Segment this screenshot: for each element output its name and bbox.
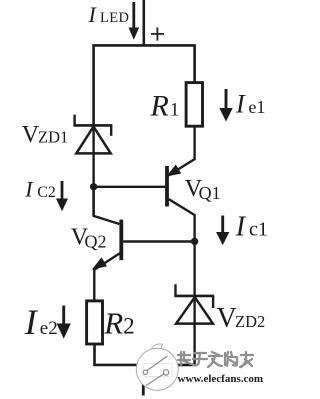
svg-text:I: I xyxy=(235,90,246,119)
transistor VQ1 xyxy=(166,128,194,242)
current arrow IC2 xyxy=(56,181,68,211)
label VZD1 xyxy=(22,122,68,148)
label VZD2 xyxy=(217,303,266,334)
svg-text:2: 2 xyxy=(123,313,135,338)
svg-text:1: 1 xyxy=(170,99,180,120)
svg-text:V: V xyxy=(217,303,237,334)
svg-text:R: R xyxy=(103,305,123,340)
label IC2 xyxy=(24,177,56,202)
svg-text:ZD2: ZD2 xyxy=(235,312,265,331)
wire: R2 bottom to bottom rail xyxy=(95,345,195,365)
svg-text:www.elecfans.com: www.elecfans.com xyxy=(178,373,264,385)
label I_LED xyxy=(88,2,130,27)
svg-text:R: R xyxy=(150,89,169,122)
svg-text:I: I xyxy=(88,2,98,27)
current arrow Ie2 xyxy=(57,306,71,339)
wire: VQ1 base from node A xyxy=(94,186,166,188)
svg-text:Q1: Q1 xyxy=(199,183,221,203)
resistor R1 xyxy=(186,83,202,127)
svg-text:LED: LED xyxy=(100,10,129,26)
current arrow Ie1 xyxy=(219,89,232,122)
transistor VQ2 xyxy=(92,187,122,300)
svg-text:I: I xyxy=(24,302,39,342)
label Ic1 xyxy=(235,211,268,242)
node A junction dot xyxy=(90,183,97,190)
svg-text:ZD1: ZD1 xyxy=(38,127,68,146)
wire: left branch VZD1 anode to node A xyxy=(92,126,94,216)
label Ie2 xyxy=(24,302,58,342)
current arrow Ic1 xyxy=(216,216,229,246)
svg-text:I: I xyxy=(24,177,34,202)
node B junction dot xyxy=(191,238,198,245)
label R1 xyxy=(150,89,180,122)
svg-text:I: I xyxy=(235,211,247,242)
zener diode VZD2 xyxy=(174,284,214,323)
label VQ1 xyxy=(185,176,221,203)
label R2 xyxy=(103,305,134,340)
watermark text dianzi fashaoyou xyxy=(178,352,253,367)
svg-text:e2: e2 xyxy=(40,318,58,339)
wire: right branch node B down through VZD2 xyxy=(193,241,195,365)
current arrow I_LED xyxy=(129,2,140,40)
wire: top supply lead xyxy=(143,0,146,46)
svg-text:e1: e1 xyxy=(248,97,265,117)
label VQ2 xyxy=(71,224,107,251)
wire: bottom output stub xyxy=(142,365,145,396)
label Ie1 xyxy=(235,90,265,119)
svg-text:c1: c1 xyxy=(249,218,268,240)
svg-text:Q2: Q2 xyxy=(85,232,107,252)
svg-text:C2: C2 xyxy=(37,184,56,201)
watermark logo circle xyxy=(136,344,178,390)
wire: top horizontal rail with left and right drops xyxy=(94,45,195,126)
zener diode VZD1 xyxy=(73,115,112,154)
label + (plus terminal) xyxy=(151,27,164,40)
wire: VQ2 base to node B xyxy=(123,240,194,242)
resistor R2 xyxy=(87,301,103,344)
